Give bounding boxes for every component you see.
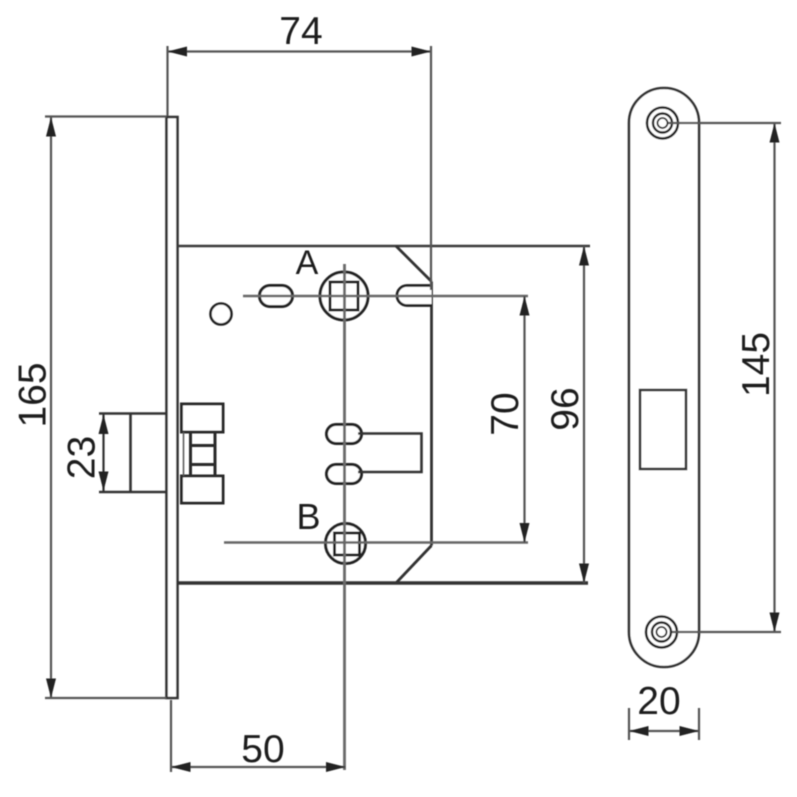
strike plate bottom screw hole middle — [652, 623, 671, 642]
dimension 70 line — [523, 296, 525, 543]
dimension 74 arrow left — [168, 47, 188, 57]
spindle hole B outer circle — [326, 524, 366, 564]
follower H rung lower — [191, 463, 216, 466]
dimension 165 arrow bottom — [46, 679, 56, 699]
dimension 74 extension left — [166, 46, 168, 116]
dimension 74 line — [168, 50, 432, 52]
svg-text:20: 20 — [637, 680, 680, 723]
strike plate top screw hole outer — [647, 108, 678, 139]
dimension 165 arrow top — [46, 117, 56, 137]
latch guide rectangle — [358, 434, 422, 473]
svg-text:B: B — [296, 496, 320, 537]
svg-text:145: 145 — [735, 332, 778, 397]
follower bottom block — [182, 476, 224, 503]
spindle hole A square — [330, 282, 358, 310]
lock body right edge — [430, 282, 433, 546]
dimension 20 arrow right — [680, 726, 700, 736]
center line horizontal through B (bottom extension for 70) — [224, 541, 528, 543]
dimension 50 arrow left — [171, 762, 191, 772]
svg-text:165: 165 — [12, 362, 55, 427]
strike plate outline — [629, 88, 699, 667]
svg-text:96: 96 — [544, 387, 587, 430]
svg-text:70: 70 — [484, 392, 527, 435]
svg-text:74: 74 — [279, 10, 322, 53]
slot right of A at body edge — [397, 286, 432, 306]
svg-text:23: 23 — [61, 436, 104, 479]
dimension 20 extension left — [628, 708, 630, 740]
dimension 74 extension right — [430, 46, 432, 290]
strike plate top screw hole middle — [653, 114, 672, 133]
lock body bottom-right chamfer — [396, 546, 432, 584]
spindle hole A outer circle — [320, 272, 368, 320]
svg-text:50: 50 — [241, 728, 284, 771]
dimension 20 extension right — [698, 708, 700, 740]
dimension 145 extension bottom — [672, 631, 781, 633]
middle slot lower — [327, 465, 362, 484]
dimension 74 arrow right — [412, 47, 432, 57]
dimension 96 arrow top — [579, 246, 589, 266]
follower H rung upper — [191, 444, 216, 447]
lock body bottom edge (extends right as extension line for 96) — [178, 581, 589, 585]
dimension 145 arrow bottom — [770, 613, 780, 633]
dimension 50 arrow right — [326, 762, 346, 772]
dimension 23 arrow top — [99, 415, 109, 435]
strike plate latch hole — [640, 390, 686, 469]
latch bolt bottom edge + 23 extension — [99, 491, 167, 494]
slot left of A — [260, 286, 293, 307]
svg-text:A: A — [296, 244, 319, 282]
small round hole — [211, 304, 232, 325]
dimension 70 arrow bottom — [520, 523, 530, 543]
latch bolt left edge — [129, 414, 132, 493]
strike plate bottom screw hole inner — [657, 627, 667, 637]
dimension 165 extension top — [45, 115, 167, 117]
faceplate (lock front plate) — [167, 117, 178, 698]
follower H middle left bar — [189, 432, 192, 476]
dimension 145 extension top — [668, 122, 781, 124]
follower H middle right bar — [214, 432, 217, 476]
dimension 145 arrow top — [770, 123, 780, 143]
follower top block — [182, 404, 224, 432]
dimension 23 arrow bottom — [99, 472, 109, 492]
dimension 50 line — [171, 766, 346, 768]
center line horizontal through A (top extension for 70) — [243, 295, 528, 297]
lock body top edge (extends right as extension line for 96) — [178, 245, 591, 247]
dimension 96 arrow bottom — [579, 564, 589, 584]
dimension 165 line — [50, 117, 52, 698]
lock body top-right chamfer — [396, 246, 432, 282]
middle slot upper — [327, 425, 362, 444]
dimension 50 extension left — [170, 700, 172, 772]
dimension 23 line — [102, 415, 104, 492]
strike plate bottom screw hole outer — [646, 617, 677, 648]
dimension 165 extension bottom — [45, 697, 167, 699]
strike plate top screw hole inner — [658, 118, 668, 128]
spindle hole B square — [335, 533, 360, 555]
center line vertical through A and B — [343, 264, 346, 770]
dimension 145 line — [773, 123, 775, 632]
dimension 96 line — [583, 246, 585, 583]
dimension 70 arrow top — [520, 296, 530, 316]
latch bolt top edge + 23 extension — [99, 412, 167, 415]
dimension 20 arrow left — [629, 726, 649, 736]
dimension 20 line — [629, 730, 699, 732]
follower thin tail line — [183, 432, 185, 476]
